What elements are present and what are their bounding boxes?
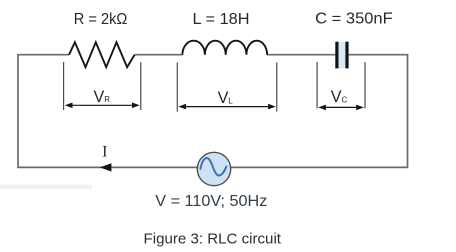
svg-text:L = 18H: L = 18H [193, 11, 250, 28]
svg-text:L: L [228, 96, 233, 105]
svg-text:C: C [342, 95, 348, 104]
svg-text:V = 110V; 50Hz: V = 110V; 50Hz [155, 193, 267, 210]
svg-text:V: V [94, 88, 105, 106]
svg-text:V: V [218, 89, 229, 107]
svg-text:R: R [104, 95, 110, 104]
svg-text:Figure 3: RLC circuit: Figure 3: RLC circuit [144, 230, 282, 247]
svg-text:C = 350nF: C = 350nF [315, 10, 393, 27]
svg-text:R = 2kΩ: R = 2kΩ [74, 11, 128, 28]
svg-text:I: I [102, 143, 107, 160]
svg-text:V: V [331, 88, 342, 106]
